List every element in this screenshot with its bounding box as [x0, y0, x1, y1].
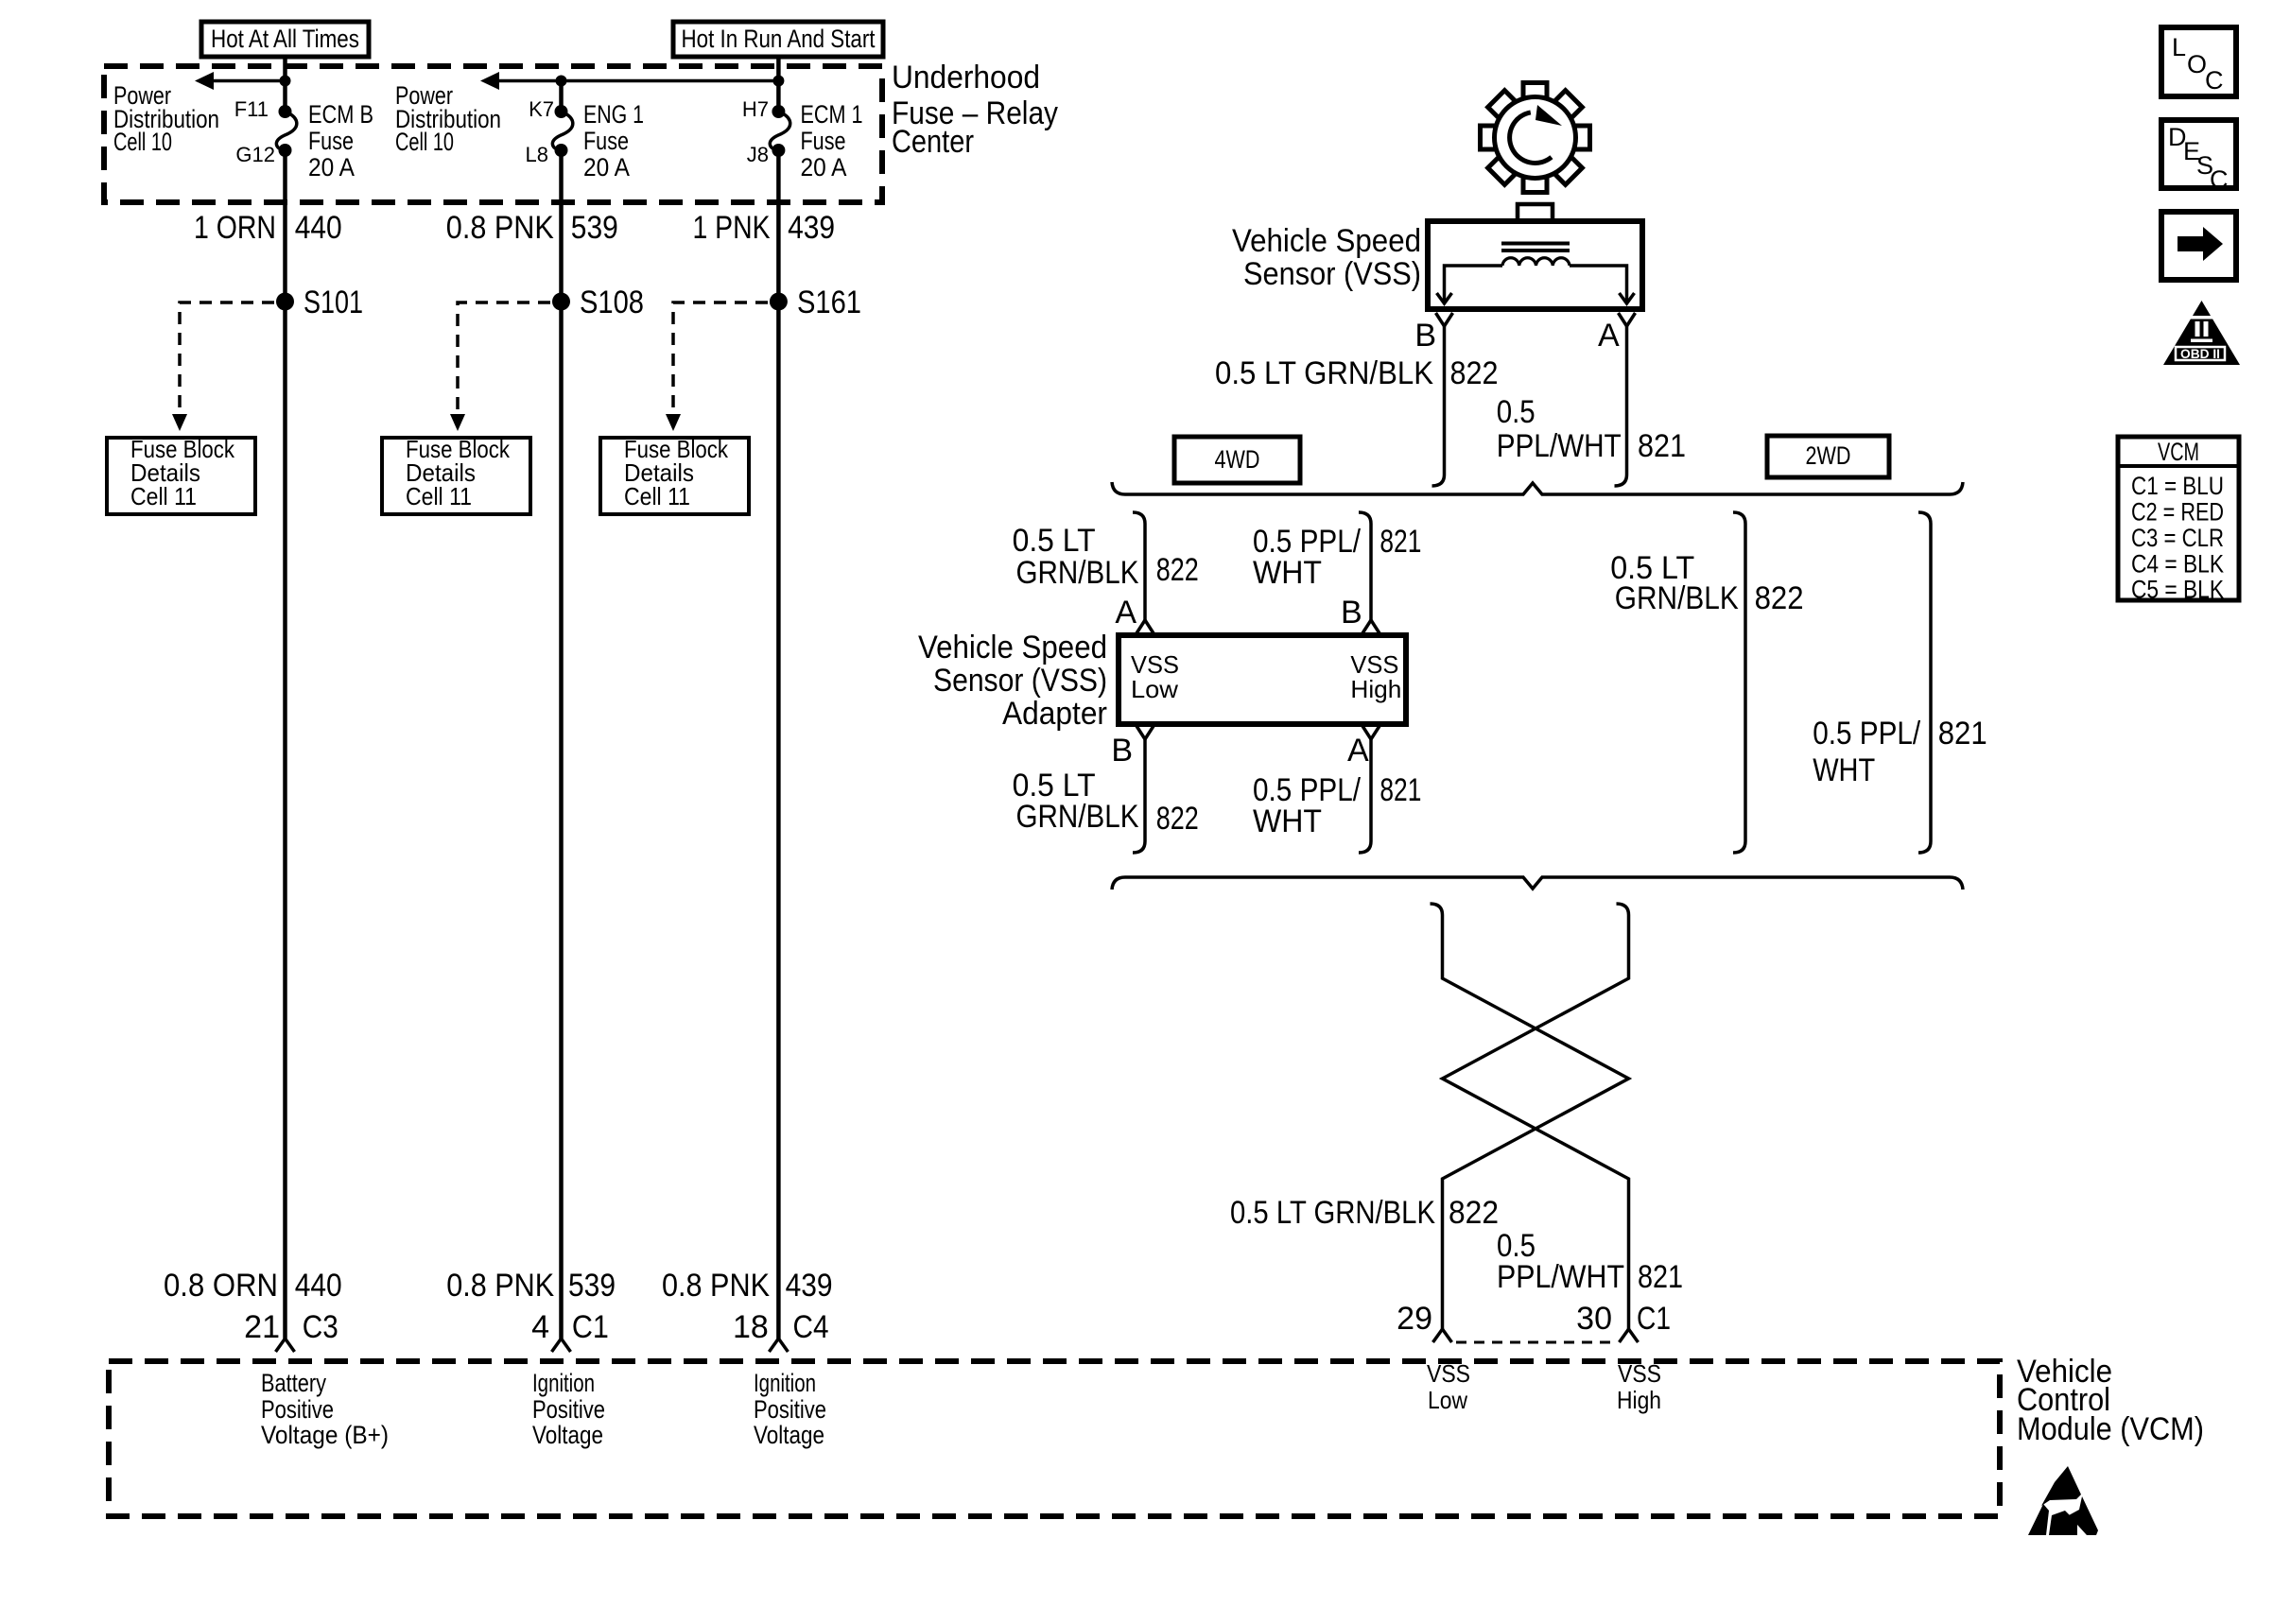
- svg-text:ECM B: ECM B: [308, 100, 373, 129]
- wire from arrow line to fuse K7: [559, 81, 564, 112]
- node 2WD: [1767, 436, 1889, 477]
- wire label 1 ORN 440: [194, 210, 342, 246]
- brace (top, splice options): [1112, 482, 1963, 494]
- svg-text:0.5 LT GRN/BLK: 0.5 LT GRN/BLK: [1215, 355, 1433, 391]
- svg-text:GRN/BLK: GRN/BLK: [1016, 799, 1139, 835]
- svg-text:0.8 PNK: 0.8 PNK: [662, 1268, 770, 1304]
- svg-text:Cell 10: Cell 10: [113, 128, 172, 156]
- sensor lead to pin A: [1570, 266, 1635, 303]
- wire 0.5 PPL/WHT 821 (2WD path): [1918, 512, 1931, 853]
- pin label 18 C4: [733, 1309, 829, 1345]
- icon LOC: [2161, 27, 2236, 96]
- svg-text:1 ORN: 1 ORN: [194, 210, 276, 246]
- wire label 0.5 LT GRN/BLK 822 (2WD): [1610, 550, 1803, 616]
- svg-text:Positive: Positive: [532, 1395, 605, 1424]
- svg-text:821: 821: [1379, 524, 1421, 560]
- svg-text:0.5 PPL/: 0.5 PPL/: [1813, 716, 1920, 752]
- svg-text:Positive: Positive: [261, 1395, 334, 1424]
- junction dot wire2/arrow: [556, 76, 567, 87]
- connector fork VCM pin 29: [1433, 1329, 1452, 1342]
- svg-text:Center: Center: [892, 124, 974, 160]
- svg-text:C4 = BLK: C4 = BLK: [2131, 550, 2224, 579]
- svg-text:L8: L8: [526, 143, 548, 166]
- svg-text:Cell 11: Cell 11: [130, 482, 197, 510]
- svg-text:Underhood: Underhood: [892, 60, 1040, 95]
- svg-text:High: High: [1617, 1386, 1661, 1414]
- svg-text:Sensor (VSS): Sensor (VSS): [933, 663, 1107, 699]
- svg-text:S108: S108: [580, 285, 644, 320]
- wire 0.8 PNK 539 (fuse L8 to S108): [559, 150, 564, 302]
- wire label 0.5 LT GRN/BLK 822 (adapter bottom): [1013, 768, 1199, 837]
- svg-text:0.8 PNK: 0.8 PNK: [446, 1268, 554, 1304]
- Fuse Block Details Cell 11 (right): [600, 435, 749, 514]
- wire label 0.5 LT GRN/BLK 822 (VCM): [1230, 1195, 1499, 1231]
- wire label 0.8 PNK 539: [446, 210, 618, 246]
- pin label 30 C1: [1576, 1301, 1671, 1337]
- svg-text:Cell 11: Cell 11: [624, 482, 690, 510]
- wire label 0.5 PPL/WHT 821 (VCM): [1497, 1228, 1683, 1295]
- svg-text:1 PNK: 1 PNK: [693, 210, 771, 246]
- wire 822 to adapter pin A (4WD): [1133, 512, 1145, 620]
- svg-text:A: A: [1347, 733, 1369, 769]
- connector fork pin 21: [276, 1339, 295, 1352]
- label ECM 1 Fuse 20 A: [801, 100, 863, 181]
- svg-text:20 A: 20 A: [801, 153, 847, 181]
- pin label 21 C3: [244, 1309, 338, 1345]
- wire 0.8 PNK 439 (S161 to VCM pin 18 C4): [776, 302, 781, 1339]
- wire label 1 PNK 439: [693, 210, 836, 246]
- node 4WD: [1174, 437, 1300, 483]
- wire 822 twisted pair segment (to VCM pin 29): [1431, 904, 1629, 1329]
- svg-text:H7: H7: [742, 97, 769, 121]
- svg-text:ECM 1: ECM 1: [801, 100, 863, 129]
- Fuse Block Details Cell 11 (left): [107, 435, 255, 514]
- svg-text:PPL/WHT: PPL/WHT: [1497, 428, 1622, 464]
- VCM connector legend table: [2118, 437, 2239, 604]
- svg-text:S161: S161: [797, 285, 861, 320]
- svg-text:822: 822: [1755, 580, 1804, 616]
- splice S101: [276, 285, 363, 320]
- svg-text:L: L: [2172, 33, 2186, 61]
- connector fork adapter pin A: [1136, 620, 1154, 633]
- wire label 0.5 PPL/WHT 821 (2WD): [1813, 716, 1987, 788]
- arrow to Power Distribution (left): [195, 72, 286, 90]
- svg-text:20 A: 20 A: [308, 153, 355, 181]
- svg-text:C2 = RED: C2 = RED: [2131, 498, 2224, 527]
- connector fork pin 4: [552, 1339, 571, 1352]
- svg-text:C1: C1: [572, 1309, 609, 1345]
- svg-text:2WD: 2WD: [1806, 441, 1851, 470]
- svg-text:Hot At All Times: Hot At All Times: [211, 25, 359, 53]
- svg-text:High: High: [1350, 675, 1401, 703]
- svg-text:822: 822: [1156, 801, 1199, 837]
- fuse ENG 1 20A (K7-L8): [552, 105, 572, 157]
- svg-text:30: 30: [1576, 1301, 1612, 1337]
- arrow to Power Distribution (middle): [480, 72, 778, 90]
- svg-text:Adapter: Adapter: [1002, 696, 1107, 732]
- svg-text:439: 439: [786, 1268, 833, 1304]
- svg-text:4WD: 4WD: [1215, 445, 1260, 474]
- wire 1 ORN 440 (fuse G12 to S101): [283, 150, 287, 302]
- svg-text:539: 539: [571, 210, 618, 246]
- label Power Distribution Cell 10 (middle): [395, 81, 501, 156]
- Vehicle Speed Sensor (VSS) box: [1428, 221, 1642, 309]
- splice S108: [552, 285, 644, 320]
- svg-text:Positive: Positive: [754, 1395, 826, 1424]
- svg-text:439: 439: [788, 210, 835, 246]
- wire label 0.8 ORN 440: [164, 1268, 342, 1304]
- wire label 0.8 PNK 539 (lower): [446, 1268, 616, 1304]
- svg-text:20 A: 20 A: [583, 153, 630, 181]
- svg-text:Fuse: Fuse: [801, 127, 846, 155]
- label Vehicle Control Module (VCM): [2017, 1354, 2204, 1447]
- label Battery Positive Voltage (B+): [261, 1369, 389, 1449]
- svg-text:G12: G12: [235, 143, 275, 166]
- wire from Hot In Run And Start to fuse H7: [776, 57, 781, 112]
- svg-text:18: 18: [733, 1309, 769, 1345]
- wire 822 from adapter pin B to bottom brace: [1133, 739, 1145, 853]
- label Underhood Fuse-Relay Center: [892, 60, 1058, 160]
- svg-text:Ignition: Ignition: [754, 1369, 816, 1397]
- Vehicle Speed Sensor (VSS) Adapter box: [1119, 635, 1406, 724]
- wire 821 to adapter pin B (4WD): [1359, 512, 1371, 620]
- svg-text:C: C: [2205, 66, 2224, 95]
- svg-text:PPL/WHT: PPL/WHT: [1497, 1259, 1624, 1295]
- junction dot wire3/arrow: [772, 76, 784, 87]
- wire label 0.5 PPL/WHT 821 (adapter bottom): [1253, 772, 1421, 839]
- connector fork adapter pin B: [1362, 620, 1379, 633]
- svg-text:0.8 PNK: 0.8 PNK: [446, 210, 554, 246]
- wire from Hot At All Times to fuse F11: [283, 57, 287, 112]
- svg-text:440: 440: [295, 1268, 342, 1304]
- svg-text:0.5: 0.5: [1497, 394, 1536, 430]
- svg-text:A: A: [1598, 318, 1620, 354]
- splice S161: [770, 285, 861, 320]
- svg-text:S101: S101: [304, 285, 363, 320]
- wire 0.5 PPL/WHT 821 (sensor A to brace): [1615, 326, 1627, 486]
- svg-text:Cell 11: Cell 11: [406, 482, 472, 510]
- wire label 0.5 PPL/WHT 821 (adapter top): [1253, 524, 1421, 591]
- sensor lead to pin B: [1437, 266, 1503, 303]
- svg-text:VSS: VSS: [1427, 1359, 1470, 1388]
- svg-text:Fuse: Fuse: [308, 127, 354, 155]
- dashed branch from S108 to Fuse Block Details: [450, 302, 550, 431]
- wire 1 PNK 439 (fuse J8 to S161): [776, 150, 781, 302]
- wire 0.8 PNK 539 (S108 to VCM pin 4 C1): [559, 302, 564, 1339]
- svg-text:539: 539: [568, 1268, 616, 1304]
- label Ignition Positive Voltage (pin 18): [754, 1369, 826, 1449]
- svg-text:Battery: Battery: [261, 1369, 326, 1397]
- icon DESC: [2161, 120, 2236, 194]
- Underhood Fuse-Relay Center dashed box: [104, 66, 882, 202]
- brace (bottom, splice options merge): [1112, 877, 1963, 890]
- label VSS Low (VCM input): [1427, 1359, 1470, 1414]
- svg-text:ENG 1: ENG 1: [583, 100, 644, 129]
- svg-text:VSS: VSS: [1618, 1359, 1661, 1388]
- svg-text:Voltage: Voltage: [532, 1421, 603, 1449]
- svg-text:C3: C3: [303, 1309, 338, 1345]
- label ECM B Fuse 20 A: [308, 100, 373, 181]
- svg-text:GRN/BLK: GRN/BLK: [1615, 580, 1739, 616]
- label Ignition Positive Voltage (pin 4): [532, 1369, 605, 1449]
- svg-text:VCM: VCM: [2158, 438, 2199, 466]
- svg-text:Low: Low: [1428, 1386, 1467, 1414]
- svg-text:WHT: WHT: [1253, 803, 1322, 839]
- Vehicle Control Module dashed box: [109, 1361, 2000, 1516]
- VSS sensor stem: [1518, 204, 1553, 221]
- wire label 0.8 PNK 439 (lower): [662, 1268, 833, 1304]
- svg-text:Voltage (B+): Voltage (B+): [261, 1421, 389, 1449]
- fuse ECM 1 20A (H7-J8): [770, 105, 789, 157]
- svg-text:F11: F11: [234, 97, 269, 121]
- svg-text:821: 821: [1379, 772, 1421, 808]
- svg-text:822: 822: [1450, 355, 1499, 391]
- svg-text:C4: C4: [793, 1309, 829, 1345]
- svg-text:821: 821: [1638, 428, 1686, 464]
- svg-text:Voltage: Voltage: [754, 1421, 824, 1449]
- svg-text:C1 = BLU: C1 = BLU: [2131, 472, 2224, 500]
- svg-text:C5 = BLK: C5 = BLK: [2131, 576, 2224, 604]
- Fuse Block Details Cell 11 (middle): [382, 435, 530, 514]
- icon OBD II triangle: [2163, 301, 2240, 365]
- wire 0.8 ORN 440 (S101 to VCM pin 21 C3): [283, 302, 287, 1339]
- svg-text:Fuse: Fuse: [583, 127, 629, 155]
- svg-text:21: 21: [244, 1309, 280, 1345]
- wire label 0.5 LT GRN/BLK 822 (adapter top): [1013, 523, 1199, 591]
- svg-text:0.8 ORN: 0.8 ORN: [164, 1268, 278, 1304]
- fuse ECM B 20A (F11-G12): [276, 105, 296, 157]
- pin label 4 C1: [531, 1309, 609, 1345]
- wire 821 twisted pair segment (to VCM pin 30): [1443, 904, 1629, 1329]
- label Vehicle Speed Sensor (VSS) Adapter: [918, 630, 1107, 732]
- label VSS High (VCM input): [1617, 1359, 1661, 1414]
- svg-text:Vehicle Speed: Vehicle Speed: [1232, 223, 1421, 259]
- svg-text:WHT: WHT: [1813, 752, 1875, 788]
- dashed connector C1 between pins 29 and 30: [1456, 1341, 1616, 1344]
- svg-text:Sensor (VSS): Sensor (VSS): [1243, 256, 1421, 292]
- svg-text:WHT: WHT: [1253, 555, 1322, 591]
- svg-text:822: 822: [1449, 1195, 1499, 1231]
- connector fork adapter pin B (bottom): [1136, 726, 1154, 739]
- svg-text:Low: Low: [1131, 675, 1178, 703]
- svg-text:4: 4: [531, 1309, 549, 1345]
- label Power Distribution Cell 10 (left): [113, 81, 219, 156]
- svg-text:J8: J8: [747, 143, 769, 166]
- svg-text:0.5 LT GRN/BLK: 0.5 LT GRN/BLK: [1230, 1195, 1435, 1231]
- junction dot wire1/arrow: [280, 76, 291, 87]
- svg-text:Cell 10: Cell 10: [395, 128, 454, 156]
- dashed branch from S101 to Fuse Block Details: [172, 302, 274, 431]
- icon forward arrow: [2161, 212, 2236, 280]
- svg-text:Vehicle Speed: Vehicle Speed: [918, 630, 1107, 665]
- dashed branch from S161 to Fuse Block Details: [666, 302, 768, 431]
- svg-text:C3 = CLR: C3 = CLR: [2131, 524, 2224, 552]
- wire label 0.5 LT GRN/BLK 822: [1215, 355, 1499, 391]
- label ENG 1 Fuse 20 A: [583, 100, 644, 181]
- svg-text:440: 440: [295, 210, 342, 246]
- svg-text:OBD II: OBD II: [2180, 346, 2220, 361]
- sensor pickup coil: [1502, 258, 1570, 266]
- wire label 0.5 PPL/WHT 821: [1497, 394, 1686, 464]
- connector fork VCM pin 30: [1620, 1329, 1639, 1342]
- connector fork pin 18: [769, 1339, 788, 1352]
- connector fork sensor pin B: [1436, 313, 1453, 326]
- svg-text:O: O: [2187, 50, 2207, 78]
- svg-text:K7: K7: [529, 97, 554, 121]
- svg-text:Hot In Run And Start: Hot In Run And Start: [682, 25, 876, 53]
- label Vehicle Speed Sensor (VSS): [1232, 223, 1421, 292]
- svg-text:821: 821: [1938, 716, 1987, 752]
- svg-text:C1: C1: [1637, 1301, 1671, 1337]
- svg-text:0.5 LT: 0.5 LT: [1013, 523, 1096, 559]
- sensor core lines: [1501, 244, 1570, 251]
- connector fork adapter pin A (bottom): [1362, 726, 1379, 739]
- wire 0.5 LT GRN/BLK 822 (sensor B to brace): [1432, 326, 1445, 486]
- svg-text:29: 29: [1397, 1301, 1432, 1337]
- connector fork sensor pin A: [1619, 313, 1636, 326]
- svg-text:Ignition: Ignition: [532, 1369, 595, 1397]
- wire 821 from adapter pin A to bottom brace: [1359, 739, 1371, 853]
- svg-text:821: 821: [1638, 1259, 1683, 1295]
- svg-text:B: B: [1414, 318, 1436, 354]
- ESD sensitivity symbol: [2028, 1466, 2098, 1535]
- node Hot At All Times: [201, 22, 369, 57]
- node Hot In Run And Start: [673, 22, 883, 57]
- svg-text:822: 822: [1156, 552, 1199, 588]
- reluctor gear icon (VSS): [1481, 83, 1590, 193]
- svg-text:B: B: [1341, 595, 1362, 631]
- svg-text:GRN/BLK: GRN/BLK: [1016, 555, 1139, 591]
- svg-text:C: C: [2210, 165, 2229, 194]
- svg-text:Module (VCM): Module (VCM): [2017, 1411, 2204, 1447]
- wire 0.5 LT GRN/BLK 822 (2WD path): [1733, 512, 1745, 853]
- svg-text:B: B: [1111, 733, 1133, 769]
- svg-text:A: A: [1115, 595, 1136, 631]
